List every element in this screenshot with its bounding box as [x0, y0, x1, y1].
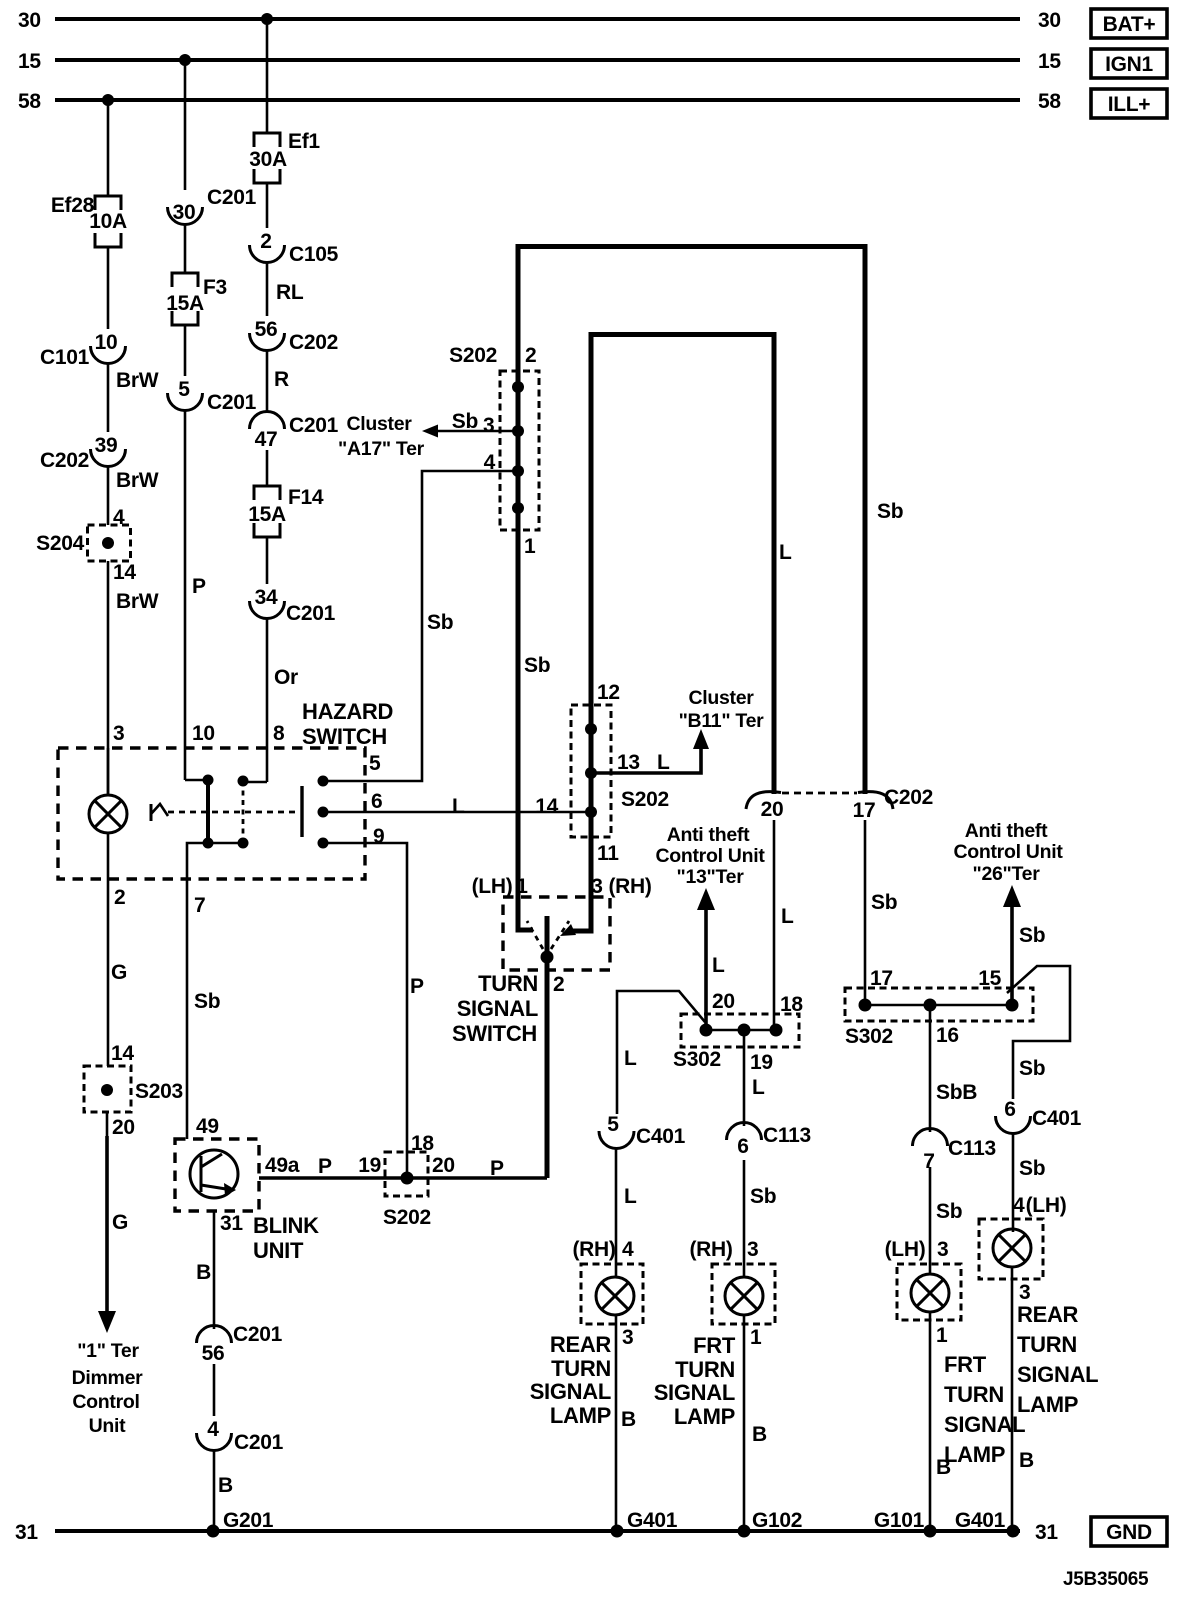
svg-text:Sb: Sb: [524, 654, 550, 677]
svg-text:1: 1: [936, 1324, 948, 1347]
svg-text:15: 15: [18, 50, 41, 73]
svg-text:11: 11: [597, 842, 619, 865]
wire col1 BrW S204 to hazard switch pin 3: [108, 561, 159, 795]
node S302 dot pin20: [700, 1024, 713, 1037]
svg-text:30A: 30A: [249, 148, 287, 171]
node rear LH pin4 label: [1013, 1194, 1066, 1217]
svg-text:3: 3: [1019, 1281, 1030, 1304]
svg-text:L: L: [752, 1076, 765, 1099]
connector C201 pin 4 lower: [197, 1418, 284, 1454]
wire B lamp to G102: [744, 1315, 802, 1532]
svg-text:56: 56: [202, 1342, 225, 1365]
svg-text:HAZARD: HAZARD: [302, 699, 393, 724]
node junction bus15/col2: [179, 54, 191, 66]
node hazard contact dot 5: [318, 776, 329, 787]
lamp rear turn signal LH: [979, 1219, 1043, 1279]
svg-text:Sb: Sb: [1019, 1057, 1045, 1080]
wire col3 RL C105 to C202: [267, 261, 304, 316]
svg-text:C113: C113: [763, 1124, 811, 1147]
fuse F3 15A: [166, 273, 227, 325]
svg-text:LAMP: LAMP: [550, 1403, 611, 1428]
svg-text:56: 56: [255, 318, 278, 341]
svg-text:C101: C101: [40, 346, 90, 369]
svg-text:R: R: [274, 368, 289, 391]
wire S202 pin1 Sb down to turn signal switch pin1: [518, 530, 550, 930]
svg-text:Anti theft: Anti theft: [667, 824, 750, 846]
wire hazard lamp bottom lead pin 2: [108, 833, 125, 909]
svg-text:Dimmer: Dimmer: [72, 1367, 144, 1389]
svg-text:Anti theft: Anti theft: [965, 820, 1048, 842]
svg-text:58: 58: [18, 90, 41, 113]
node S302 dot pin18: [770, 1024, 783, 1037]
wire bus 30: [55, 17, 1020, 21]
wire col2 bus15 to C201: [184, 60, 187, 190]
svg-text:4: 4: [622, 1238, 634, 1261]
svg-text:SWITCH: SWITCH: [302, 724, 387, 749]
svg-text:3: 3: [591, 875, 602, 898]
switch hazard closed contact bar: [206, 780, 210, 843]
svg-text:19: 19: [358, 1154, 381, 1177]
svg-text:15A: 15A: [248, 503, 286, 526]
svg-text:15: 15: [1038, 50, 1061, 73]
node hazard contact dot 8a: [238, 776, 249, 787]
svg-text:31: 31: [1035, 1521, 1058, 1544]
svg-text:3: 3: [747, 1238, 758, 1261]
svg-text:14: 14: [535, 795, 558, 818]
wire col3 Ef1 to C105: [266, 183, 269, 228]
svg-text:LAMP: LAMP: [1017, 1392, 1078, 1417]
wire bus 15: [55, 58, 1020, 62]
connector C401 pin 5: [599, 1113, 686, 1149]
connector C202 pin 39: [40, 434, 126, 472]
svg-text:C105: C105: [289, 243, 339, 266]
svg-text:49a: 49a: [265, 1154, 300, 1177]
node junction bus30/col3: [261, 13, 273, 25]
wire bus 31 ground: [55, 1529, 1020, 1533]
wire col3 bus30 to Ef1: [266, 19, 269, 133]
svg-text:S302: S302: [673, 1048, 721, 1071]
svg-text:31: 31: [15, 1521, 38, 1544]
node frt RH lamp name: [654, 1333, 736, 1429]
wire col1 G hazard pin2 to S203: [108, 879, 134, 1066]
svg-text:"1" Ter: "1" Ter: [77, 1340, 139, 1362]
node S302 dot pin19: [738, 1024, 751, 1037]
svg-text:BrW: BrW: [116, 469, 159, 492]
svg-text:17: 17: [853, 799, 876, 822]
svg-text:TURN: TURN: [944, 1382, 1004, 1407]
svg-text:REAR: REAR: [550, 1332, 612, 1357]
svg-text:G: G: [112, 1211, 128, 1234]
wire col3 C201 to F14: [266, 450, 269, 486]
wire S202 pin13 L to cluster B11 arrow: [591, 729, 709, 774]
connector C201 pin 30: [168, 186, 257, 225]
svg-text:31: 31: [220, 1212, 243, 1235]
connector C113 pin 7: [913, 1129, 996, 1174]
svg-text:C201: C201: [286, 602, 336, 625]
wire S202 pin3 Sb to cluster A17 arrow: [422, 410, 518, 438]
terminal GND: [1091, 1517, 1167, 1546]
svg-text:34: 34: [255, 586, 278, 609]
svg-text:B: B: [218, 1474, 233, 1497]
svg-text:18: 18: [411, 1132, 434, 1155]
svg-text:F3: F3: [203, 276, 227, 299]
connector C201 pin 56 lower: [197, 1323, 283, 1365]
wire Sb C113-7 to lamp: [930, 1167, 962, 1274]
node hazard contact dot 10b: [203, 838, 214, 849]
svg-text:3: 3: [937, 1238, 948, 1261]
wire S302 left bar: [706, 1029, 776, 1032]
node S202 bottom dot: [401, 1172, 414, 1185]
wire B lamp to G401: [616, 1315, 678, 1532]
svg-text:G: G: [111, 961, 127, 984]
svg-text:B: B: [752, 1423, 767, 1446]
wire S302 right bar: [865, 1004, 1012, 1007]
wire col3 F14 to C201-34: [266, 537, 269, 584]
svg-text:B: B: [936, 1456, 951, 1479]
svg-text:3: 3: [483, 414, 494, 437]
wire col3 R C202 to C201-47: [267, 349, 289, 413]
wire L C202-20 down to S302 pin18: [774, 820, 803, 1030]
svg-text:20: 20: [112, 1116, 135, 1139]
switch hazard open contact dashed: [242, 781, 245, 843]
terminal ILL+: [1091, 89, 1167, 118]
wire Sb net thick: S202 top up, across, down right side: [518, 247, 865, 795]
svg-text:(LH): (LH): [885, 1238, 926, 1261]
wire hazard pin5 Sb up to S202 pin4: [323, 471, 518, 781]
svg-text:1: 1: [516, 875, 528, 898]
svg-text:16: 16: [936, 1024, 959, 1047]
wire hazard pin7 Sb down to blink unit: [187, 879, 220, 1139]
svg-text:P: P: [410, 975, 424, 998]
svg-text:BrW: BrW: [116, 590, 159, 613]
node anti-theft 13 text: [655, 824, 765, 888]
svg-text:Sb: Sb: [877, 500, 903, 523]
node junction G401: [611, 1525, 624, 1538]
svg-text:3: 3: [622, 1326, 633, 1349]
svg-text:7: 7: [194, 894, 205, 917]
wire Sb C202-17 down to S302 pin17: [865, 820, 897, 1005]
svg-text:9: 9: [373, 825, 384, 848]
svg-text:REAR: REAR: [1017, 1302, 1079, 1327]
svg-text:Sb: Sb: [936, 1200, 962, 1223]
node S202 dot pin2: [512, 381, 524, 393]
svg-text:49: 49: [196, 1115, 219, 1138]
svg-text:C201: C201: [207, 186, 257, 209]
svg-text:8: 8: [273, 722, 285, 745]
svg-text:G102: G102: [752, 1509, 802, 1532]
splice S202 top box: [449, 344, 539, 530]
lamp rear turn signal RH: [581, 1264, 643, 1324]
splice S202 bottom box: [358, 1132, 455, 1229]
node dimmer control unit text: [72, 1340, 144, 1437]
lamp hazard indicator: [89, 795, 127, 833]
wire C201-56 to C201-4: [213, 1364, 216, 1416]
svg-text:TURN: TURN: [551, 1356, 611, 1381]
svg-text:BAT+: BAT+: [1103, 13, 1156, 36]
svg-text:L: L: [657, 751, 670, 774]
svg-text:L: L: [712, 954, 725, 977]
connector C201 pin 47: [250, 412, 339, 452]
wire S202 mid thick through: [589, 705, 594, 897]
svg-text:Ef28: Ef28: [51, 194, 95, 217]
switch SW hazard switch outline: [58, 699, 393, 879]
svg-text:Cluster: Cluster: [346, 413, 412, 435]
wire B lamp to G401 right: [955, 1267, 1034, 1532]
node junction G102: [738, 1525, 751, 1538]
svg-text:Sb: Sb: [1019, 924, 1045, 947]
switch hazard right lever bar: [300, 786, 303, 837]
svg-text:2: 2: [553, 973, 564, 996]
svg-text:P: P: [490, 1157, 504, 1180]
svg-text:(LH): (LH): [472, 875, 513, 898]
svg-text:(LH): (LH): [1026, 1194, 1067, 1217]
svg-text:SIGNAL: SIGNAL: [457, 996, 538, 1021]
switch hazard mechanical link dashed: [168, 811, 297, 814]
switch TS dashed travel right: [551, 921, 569, 949]
svg-text:B: B: [621, 1408, 636, 1431]
svg-text:FRT: FRT: [693, 1333, 736, 1358]
node junction G101: [924, 1525, 937, 1538]
wire SbB S302 pin16 down: [930, 1005, 977, 1132]
wire col1 fuse to C101: [107, 247, 110, 329]
node rear LH lamp name: [1017, 1302, 1098, 1417]
node anti-theft 26 text: [953, 820, 1063, 885]
svg-text:2: 2: [114, 886, 125, 909]
wire L net thick: TS pin3 up, across, down to C202-20: [591, 335, 774, 795]
svg-text:1: 1: [524, 535, 536, 558]
svg-text:LAMP: LAMP: [944, 1442, 1005, 1467]
connector C105 pin 2: [250, 230, 339, 266]
splice S204: [36, 525, 130, 561]
svg-text:Sb: Sb: [1019, 1157, 1045, 1180]
wire hazard pin9 P down to S202 pin18: [323, 843, 424, 1178]
switch SW turn signal outline: [452, 897, 610, 1046]
svg-text:S202: S202: [449, 344, 497, 367]
wire Sb C113-6 to lamp: [744, 1160, 776, 1277]
svg-text:C201: C201: [207, 391, 257, 414]
svg-text:C202: C202: [289, 331, 338, 354]
svg-text:ILL+: ILL+: [1108, 93, 1151, 116]
wire B lamp to G101: [874, 1312, 951, 1532]
node S202 dot pin4: [512, 465, 524, 477]
connector C202 pin 56: [250, 318, 339, 354]
svg-text:C202: C202: [884, 786, 933, 809]
svg-text:4: 4: [207, 1418, 219, 1441]
node S202 dot pin3: [512, 425, 524, 437]
svg-text:Sb: Sb: [427, 611, 453, 634]
node S302 dot pin16: [924, 999, 937, 1012]
svg-text:12: 12: [597, 681, 620, 704]
svg-text:J5B35065: J5B35065: [1063, 1569, 1149, 1590]
connector C113 pin 6: [727, 1123, 811, 1159]
svg-text:"B11" Ter: "B11" Ter: [679, 710, 765, 732]
svg-text:C113: C113: [948, 1137, 996, 1160]
svg-text:S202: S202: [621, 788, 669, 811]
node junction bus58/col1: [102, 94, 114, 106]
svg-text:B: B: [1019, 1449, 1034, 1472]
svg-text:L: L: [781, 905, 794, 928]
svg-text:L: L: [624, 1047, 637, 1070]
svg-text:SWITCH: SWITCH: [452, 1021, 537, 1046]
splice S203: [84, 1066, 183, 1112]
node hazard contact dot 10a: [203, 775, 214, 786]
wire L C401-5 to lamp: [616, 1147, 637, 1277]
svg-text:14: 14: [113, 561, 136, 584]
svg-text:BLINK: BLINK: [253, 1213, 319, 1238]
node frt LH lamp name: [944, 1352, 1025, 1467]
node S202 mid dot 14: [585, 806, 597, 818]
svg-text:2: 2: [260, 230, 271, 253]
wire hazard lamp top lead: [107, 748, 110, 795]
svg-text:15: 15: [978, 967, 1001, 990]
switch TS pole arrow head: [560, 924, 576, 936]
svg-text:"A17" Ter: "A17" Ter: [338, 438, 425, 460]
svg-text:5: 5: [369, 752, 381, 775]
svg-text:6: 6: [371, 790, 382, 813]
wire TS pin3 internal stub: [572, 897, 591, 931]
wire col3 Or C201 to hazard switch pin 8: [267, 617, 298, 782]
svg-text:TURN: TURN: [675, 1357, 735, 1382]
wire col1 BrW C101 to C202: [108, 362, 159, 432]
terminal IGN1: [1091, 49, 1167, 78]
svg-text:GND: GND: [1106, 1521, 1152, 1544]
svg-text:19: 19: [750, 1051, 773, 1074]
wire S302 pin20 L arrow up to anti-theft 13: [697, 888, 725, 1030]
node S202 mid dot 12: [585, 723, 597, 735]
fuse Ef1 30A: [249, 130, 320, 183]
connector C201 pin 5: [168, 378, 257, 414]
connector C401 pin 6: [996, 1098, 1082, 1133]
switch TS pole thick: [545, 916, 550, 970]
svg-text:BrW: BrW: [116, 369, 159, 392]
fuse Ef28 10A: [51, 194, 127, 247]
svg-text:G401: G401: [627, 1509, 678, 1532]
node S202 dot pin1: [512, 502, 524, 514]
svg-text:P: P: [192, 575, 206, 598]
node hazard contact dot 8b: [238, 838, 249, 849]
svg-text:30: 30: [1038, 9, 1061, 32]
svg-text:SIGNAL: SIGNAL: [654, 1380, 735, 1405]
wire hazard pin10 internal to contact: [185, 779, 208, 782]
svg-text:G101: G101: [874, 1509, 925, 1532]
svg-text:G201: G201: [223, 1509, 274, 1532]
wire col2 F3 to C201-5: [184, 325, 187, 376]
svg-text:4: 4: [484, 451, 496, 474]
connector C202 pin 20: [746, 792, 783, 821]
svg-text:1: 1: [750, 1326, 762, 1349]
svg-text:Sb: Sb: [750, 1185, 776, 1208]
svg-text:FRT: FRT: [944, 1352, 987, 1377]
svg-text:"26"Ter: "26"Ter: [973, 863, 1041, 885]
wire hazard pin6 L to S202 pin14: [323, 795, 591, 818]
svg-text:15A: 15A: [166, 292, 204, 315]
svg-text:5: 5: [607, 1113, 619, 1136]
svg-text:13: 13: [617, 751, 640, 774]
svg-text:20: 20: [432, 1154, 455, 1177]
terminal BAT+: [1091, 9, 1167, 38]
svg-text:Unit: Unit: [89, 1415, 127, 1437]
wire Sb C401-6 to lamp: [1013, 1132, 1045, 1232]
svg-text:C201: C201: [233, 1323, 283, 1346]
node dimmer arrow head: [98, 1311, 116, 1333]
svg-text:10A: 10A: [89, 210, 127, 233]
svg-text:39: 39: [95, 434, 118, 457]
svg-text:RL: RL: [276, 281, 304, 304]
wire col1 G S203 down to arrow: [107, 1112, 135, 1314]
svg-text:L: L: [779, 541, 792, 564]
node TS pin1 LH label: [472, 875, 529, 898]
svg-text:Sb: Sb: [871, 891, 897, 914]
node S202 mid dot 13: [585, 767, 597, 779]
svg-text:C201: C201: [234, 1431, 284, 1454]
svg-text:SIGNAL: SIGNAL: [530, 1379, 611, 1404]
node rear RH pin4 label: [572, 1238, 634, 1261]
wire blink pin31 B down to C201-56: [196, 1211, 214, 1329]
svg-text:30: 30: [18, 9, 41, 32]
node junction G401 right: [1007, 1525, 1020, 1538]
node S302 dot pin15: [1006, 999, 1019, 1012]
svg-text:C202: C202: [40, 449, 89, 472]
svg-text:47: 47: [255, 428, 278, 451]
relay U blink unit outline: [175, 1139, 319, 1263]
svg-text:IGN1: IGN1: [1105, 53, 1153, 76]
svg-text:58: 58: [1038, 90, 1061, 113]
node S302 dot pin17: [859, 999, 872, 1012]
svg-text:(RH): (RH): [689, 1238, 732, 1261]
svg-text:UNIT: UNIT: [253, 1238, 304, 1263]
splice S302 left box: [673, 1014, 799, 1071]
node TS pole dot pin2: [541, 951, 554, 964]
relay blink unit symbol: [190, 1150, 238, 1198]
connector C202 pin 17: [853, 786, 933, 822]
node TS pin3 RH label: [591, 875, 651, 898]
svg-text:6: 6: [737, 1135, 748, 1158]
svg-text:SbB: SbB: [936, 1081, 977, 1104]
svg-text:Control Unit: Control Unit: [953, 841, 1063, 863]
svg-text:LAMP: LAMP: [674, 1404, 735, 1429]
svg-text:20: 20: [761, 798, 784, 821]
svg-text:S202: S202: [383, 1206, 431, 1229]
svg-text:Control: Control: [72, 1391, 139, 1413]
wire bus 58: [55, 98, 1020, 102]
svg-text:C201: C201: [289, 414, 339, 437]
fuse F14 15A: [248, 486, 324, 537]
svg-text:C401: C401: [1032, 1107, 1082, 1130]
svg-text:2: 2: [525, 344, 536, 367]
svg-text:TURN: TURN: [478, 971, 538, 996]
wire col2 P C201 to hazard switch pin 10: [185, 409, 215, 780]
node hazard contact dot 6: [318, 807, 329, 818]
wire L S302 pin19 down: [744, 1030, 773, 1126]
switch TS dashed travel left: [527, 921, 543, 949]
node junction G201: [207, 1525, 220, 1538]
wire B C201-4 to ground bus G201: [214, 1449, 274, 1532]
svg-text:"13"Ter: "13"Ter: [677, 866, 745, 888]
svg-text:SIGNAL: SIGNAL: [1017, 1362, 1098, 1387]
wire C202 mating dashed: [782, 792, 857, 795]
wire col1 BrW C202 to S204: [108, 465, 159, 529]
svg-text:14: 14: [111, 1042, 134, 1065]
svg-text:S302: S302: [845, 1025, 893, 1048]
switch hazard actuator symbol: [151, 804, 168, 821]
svg-text:4: 4: [1013, 1194, 1025, 1217]
svg-text:F14: F14: [288, 486, 324, 509]
node cluster B11 text: [679, 687, 765, 732]
svg-text:Control Unit: Control Unit: [655, 845, 765, 867]
svg-text:(RH): (RH): [572, 1238, 615, 1261]
node frt LH pin3 label: [885, 1238, 949, 1261]
wire branch to rear RH lamp: diagonal from S302 pin20: [617, 991, 705, 1114]
